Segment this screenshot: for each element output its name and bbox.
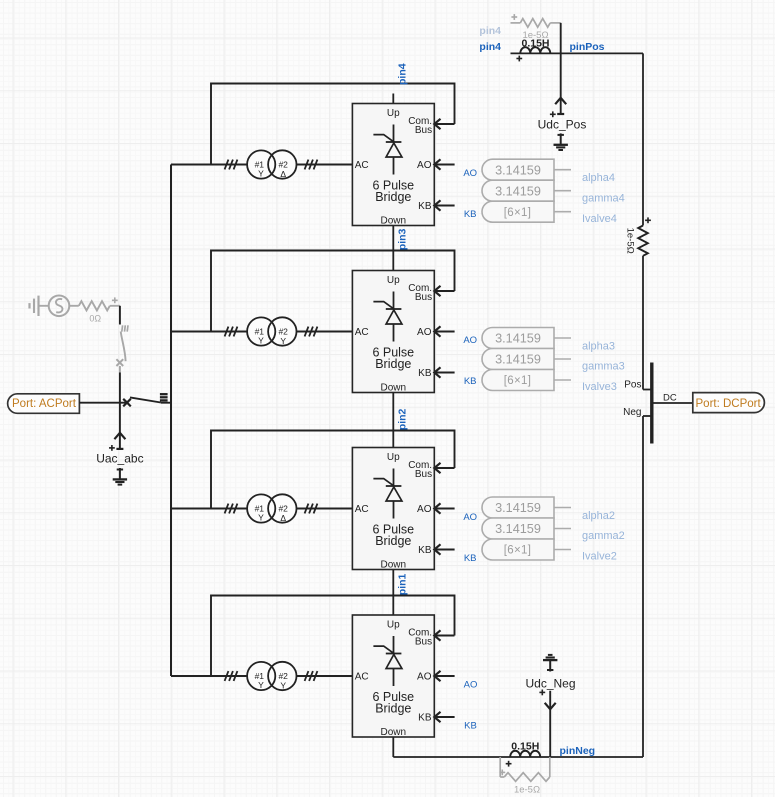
svg-text:[6×1]: [6×1] — [504, 375, 531, 387]
svg-text:AO: AO — [417, 671, 432, 682]
svg-text:Y: Y — [258, 336, 264, 346]
svg-text:3.14159: 3.14159 — [495, 501, 541, 515]
svg-text:Y: Y — [258, 169, 264, 179]
svg-text:Ivalve3: Ivalve3 — [582, 381, 617, 393]
svg-text:Ivalve2: Ivalve2 — [582, 551, 617, 563]
svg-text:AO: AO — [417, 160, 432, 171]
svg-text:3.14159: 3.14159 — [495, 184, 541, 198]
svg-text:Y: Y — [258, 513, 264, 523]
svg-text:Udc_Pos: Udc_Pos — [538, 118, 587, 132]
svg-text:Y: Y — [258, 680, 264, 690]
svg-text:KB: KB — [418, 712, 432, 723]
svg-text:pinPos: pinPos — [570, 41, 605, 53]
svg-text:Δ: Δ — [280, 169, 286, 179]
svg-text:Y: Y — [280, 336, 286, 346]
svg-text:pin2: pin2 — [397, 408, 409, 430]
svg-text:KB: KB — [464, 553, 477, 564]
svg-text:Down: Down — [381, 383, 407, 394]
svg-text:KB: KB — [464, 209, 477, 220]
svg-text:KB: KB — [464, 376, 477, 387]
svg-text:Up: Up — [387, 275, 400, 286]
svg-text:pin4: pin4 — [479, 25, 501, 37]
svg-text:Up: Up — [387, 620, 400, 631]
svg-text:pin4: pin4 — [397, 63, 409, 85]
svg-text:pinNeg: pinNeg — [560, 745, 596, 757]
svg-text:pin4: pin4 — [479, 41, 501, 53]
svg-text:3.14159: 3.14159 — [495, 163, 541, 177]
svg-text:Δ: Δ — [280, 513, 286, 523]
svg-text:Bus: Bus — [415, 636, 432, 647]
svg-text:AO: AO — [463, 512, 477, 523]
svg-text:gamma3: gamma3 — [582, 361, 625, 373]
svg-text:Up: Up — [387, 108, 400, 119]
svg-text:Port: ACPort: Port: ACPort — [12, 398, 77, 410]
svg-text:Bridge: Bridge — [375, 701, 411, 715]
svg-text:AO: AO — [417, 327, 432, 338]
svg-text:KB: KB — [418, 201, 432, 212]
svg-text:1e-5Ω: 1e-5Ω — [625, 228, 636, 254]
svg-text:pin1: pin1 — [397, 573, 409, 595]
svg-text:Udc_Neg: Udc_Neg — [525, 676, 575, 690]
svg-text:Y: Y — [280, 681, 286, 691]
svg-text:Uac_abc: Uac_abc — [96, 452, 143, 466]
svg-text:Down: Down — [381, 727, 407, 738]
svg-text:[6×1]: [6×1] — [504, 545, 531, 557]
svg-text:Port: DCPort: Port: DCPort — [696, 398, 762, 410]
svg-text:3.14159: 3.14159 — [495, 332, 541, 346]
svg-text:Bridge: Bridge — [375, 357, 411, 371]
svg-text:Bridge: Bridge — [375, 534, 411, 548]
svg-text:AC: AC — [355, 671, 369, 682]
svg-text:Up: Up — [387, 452, 400, 463]
svg-text:AC: AC — [355, 160, 369, 171]
svg-text:3.14159: 3.14159 — [495, 353, 541, 367]
svg-text:Bridge: Bridge — [375, 190, 411, 204]
svg-text:Bus: Bus — [415, 292, 432, 303]
svg-text:AO: AO — [463, 335, 477, 346]
svg-text:KB: KB — [418, 545, 432, 556]
svg-text:AC: AC — [355, 327, 369, 338]
svg-text:Pos: Pos — [624, 380, 641, 391]
svg-text:1e-5Ω: 1e-5Ω — [514, 785, 540, 796]
svg-text:Down: Down — [381, 560, 407, 571]
svg-text:gamma4: gamma4 — [582, 192, 625, 204]
svg-text:3.14159: 3.14159 — [495, 522, 541, 536]
svg-text:AO: AO — [464, 679, 478, 690]
svg-text:KB: KB — [464, 721, 477, 732]
svg-text:KB: KB — [418, 368, 432, 379]
svg-text:Bus: Bus — [415, 469, 432, 480]
svg-text:AC: AC — [355, 504, 369, 515]
svg-text:pin3: pin3 — [397, 228, 409, 250]
svg-text:0Ω: 0Ω — [89, 314, 101, 324]
svg-text:[6×1]: [6×1] — [504, 207, 531, 219]
svg-text:Neg: Neg — [623, 407, 641, 418]
svg-text:gamma2: gamma2 — [582, 530, 625, 542]
svg-text:alpha2: alpha2 — [582, 510, 615, 522]
svg-text:Down: Down — [381, 216, 407, 227]
svg-text:Ivalve4: Ivalve4 — [582, 213, 617, 225]
svg-text:alpha3: alpha3 — [582, 340, 615, 352]
svg-text:DC: DC — [663, 393, 677, 404]
svg-text:AO: AO — [417, 504, 432, 515]
svg-text:AO: AO — [463, 168, 477, 179]
svg-text:alpha4: alpha4 — [582, 172, 615, 184]
svg-text:Bus: Bus — [415, 125, 432, 136]
